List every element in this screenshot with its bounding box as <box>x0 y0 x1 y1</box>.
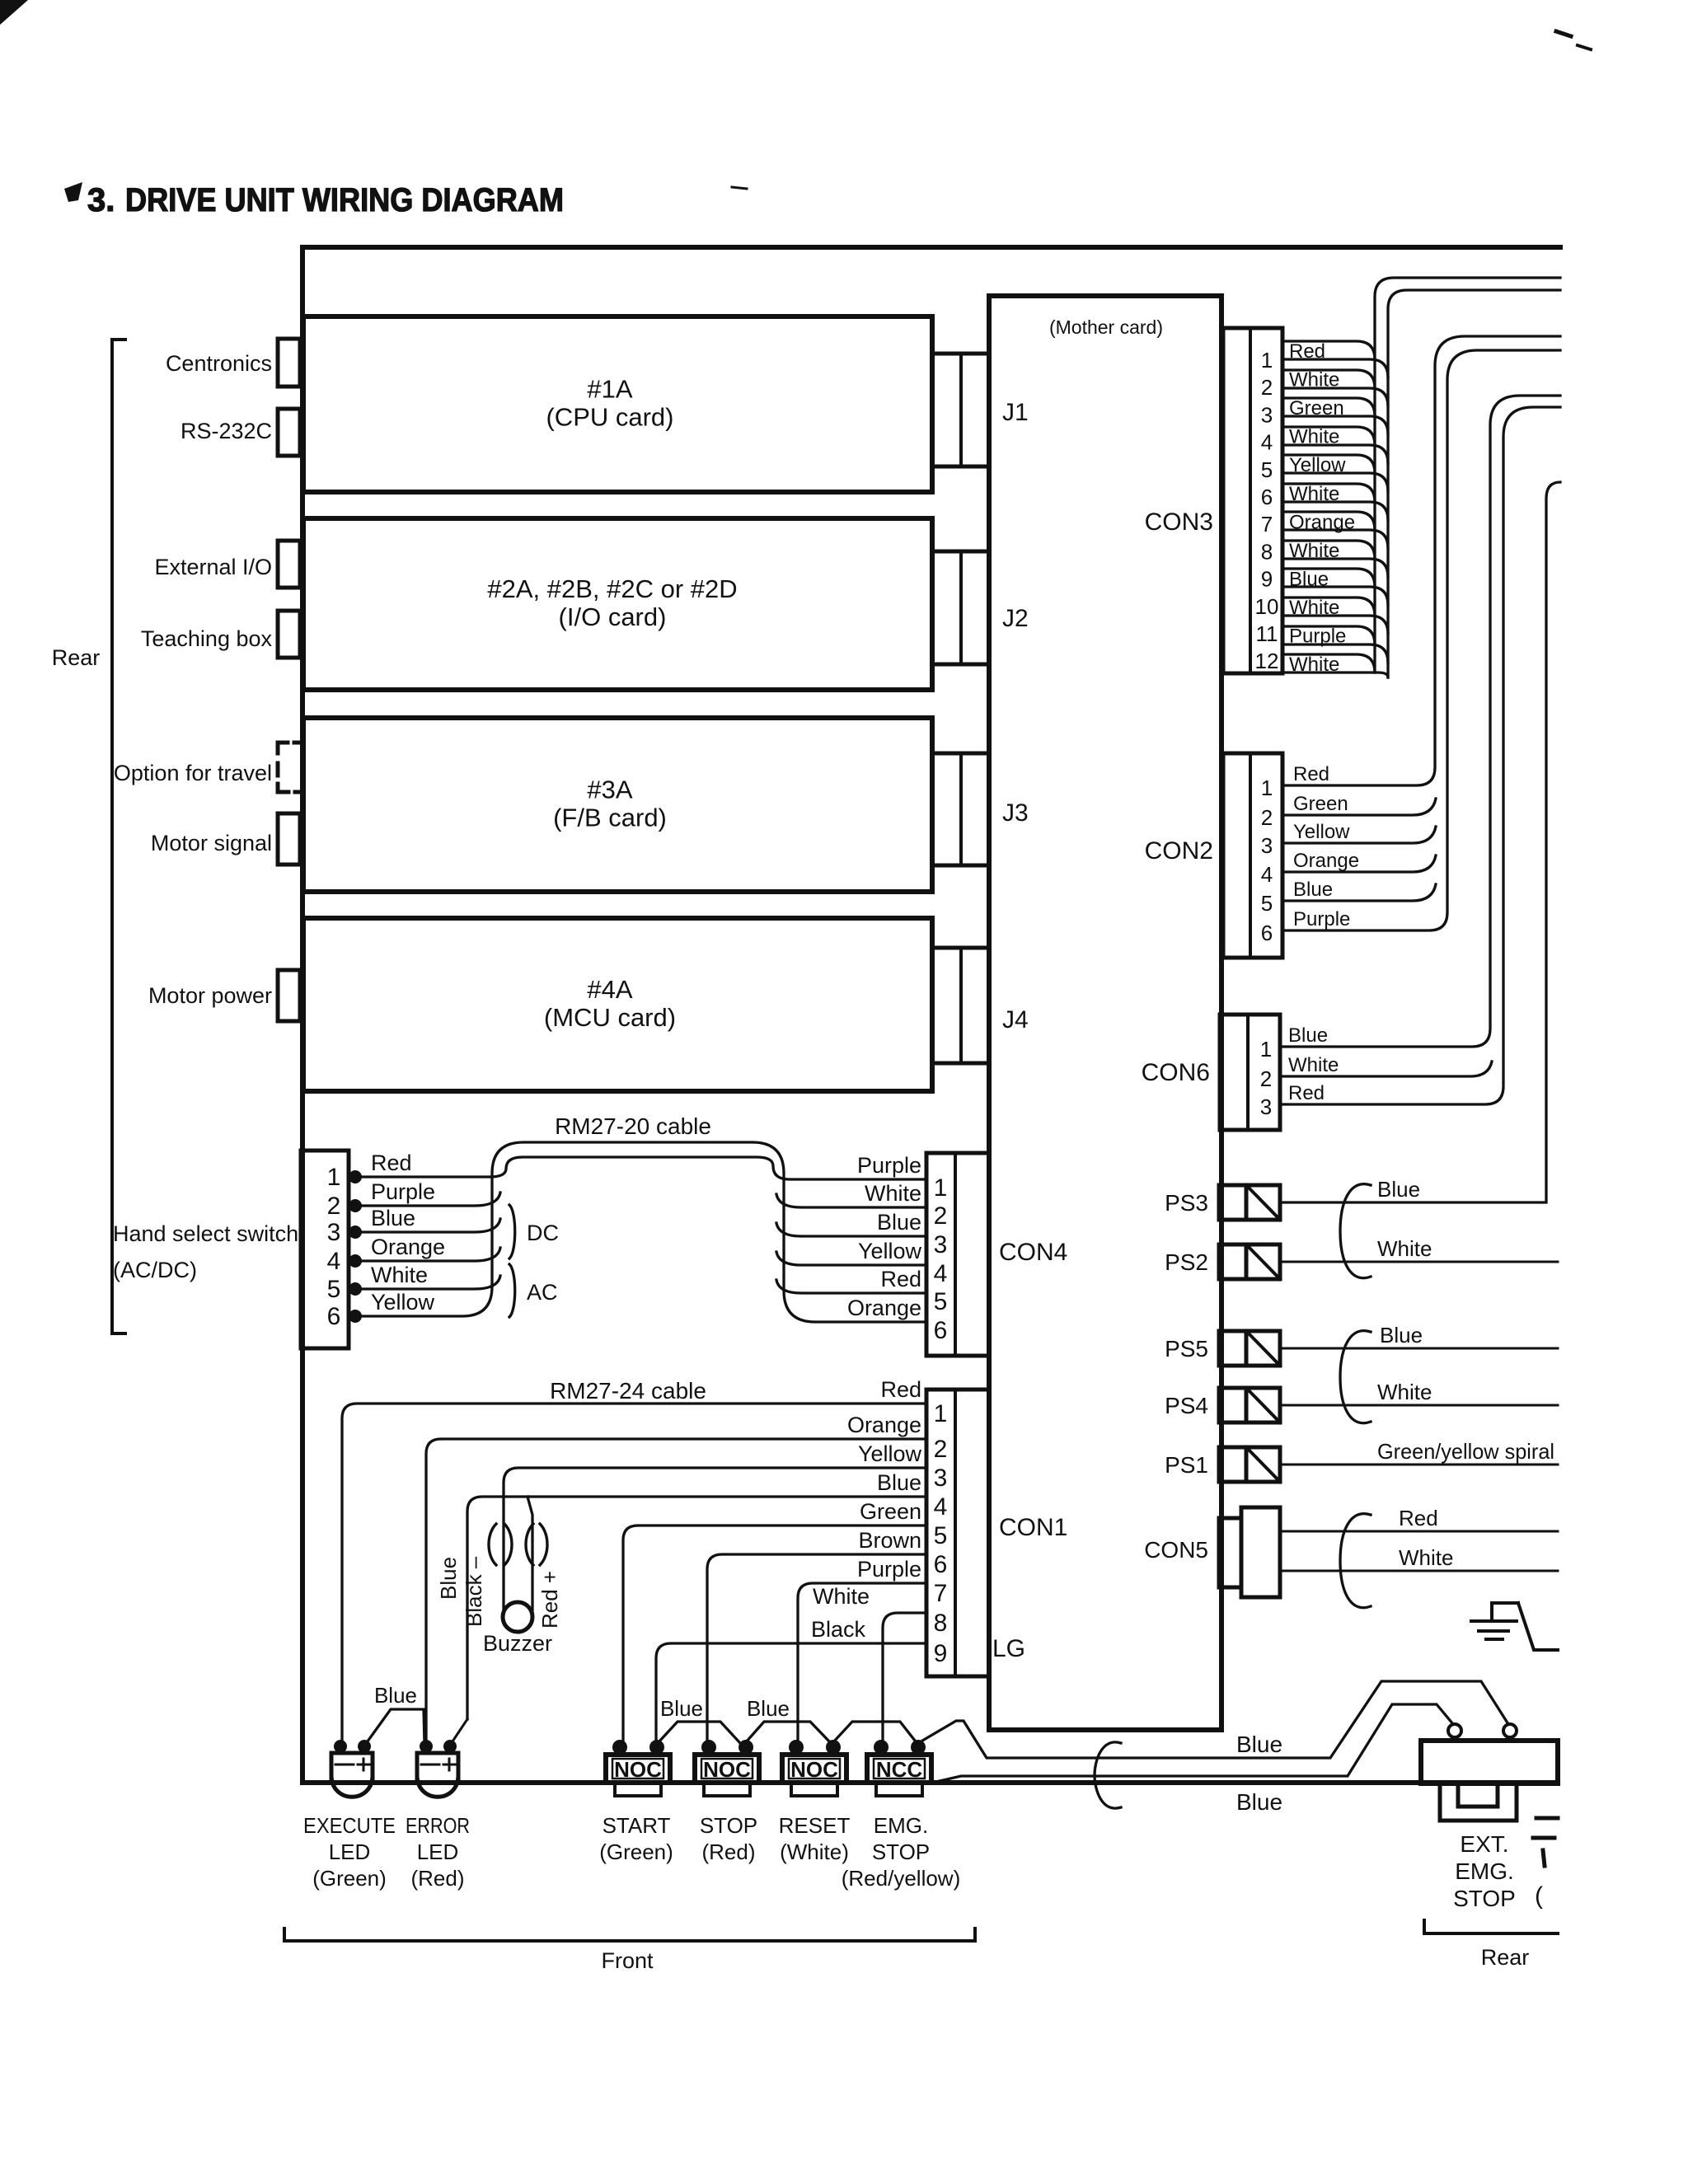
CON3 pin 9 wire box (Blue) <box>1282 569 1375 587</box>
CON1 wire 7 Purple <box>798 1583 926 1741</box>
START switch body <box>606 1755 670 1783</box>
svg-text:RESET: RESET <box>779 1813 851 1838</box>
svg-text:Blue: Blue <box>371 1206 415 1230</box>
svg-text:PS1: PS1 <box>1165 1452 1208 1478</box>
CON4 wire 3 right segment <box>776 1223 926 1236</box>
jumper wire Blue START-STOP <box>658 1722 740 1743</box>
svg-text:Orange: Orange <box>1289 511 1355 533</box>
CON4 wire 5 right segment <box>776 1280 926 1293</box>
svg-text:(Red): (Red) <box>410 1866 464 1891</box>
CON3 pin 11 wire box (Purple) <box>1282 626 1375 644</box>
svg-text:White: White <box>1289 597 1339 619</box>
bottom cable curl <box>1095 1742 1121 1808</box>
svg-text:White: White <box>1377 1236 1432 1261</box>
buzzer strain relief curls left lead <box>489 1524 496 1565</box>
RESET switch right terminal dot <box>826 1740 841 1755</box>
RM27-20 cable inner line / wire 1 <box>355 1157 926 1179</box>
svg-text:Yellow: Yellow <box>1289 454 1346 476</box>
Motor signal connector <box>278 813 300 865</box>
EMG STOP switch lower tab <box>876 1783 922 1796</box>
svg-text:EXECUTE: EXECUTE <box>303 1813 396 1838</box>
hand select switch wire 4 left segment <box>355 1248 500 1261</box>
svg-text:Green/yellow spiral: Green/yellow spiral <box>1377 1439 1554 1464</box>
hand select switch pin 2 terminal dot <box>349 1199 362 1212</box>
svg-text:LED: LED <box>329 1840 371 1864</box>
svg-text:Hand select switch: Hand select switch <box>113 1221 298 1246</box>
CON3 pin 2 wire box (White) <box>1282 370 1375 388</box>
svg-text:Centronics: Centronics <box>166 351 272 376</box>
card #2 (I/O card) <box>303 518 932 690</box>
connector CON5 body <box>1219 1518 1241 1587</box>
EXT EMG STOP plug outer <box>1440 1783 1517 1821</box>
ERROR LED polarity marks <box>421 1764 439 1766</box>
LED jumper wire Blue <box>365 1709 424 1745</box>
svg-text:Red: Red <box>371 1151 412 1175</box>
svg-text:(Green): (Green) <box>312 1866 387 1891</box>
svg-text:2: 2 <box>934 1202 948 1230</box>
CON3 cable bundle lower wall and exit wire <box>1388 290 1560 677</box>
svg-text:Front: Front <box>601 1948 654 1973</box>
svg-text:Blue: Blue <box>747 1696 790 1721</box>
Centronics connector <box>278 339 300 387</box>
PS4 wire White <box>1280 1404 1558 1407</box>
CON6 wire 2 <box>1280 1062 1492 1076</box>
svg-text:8: 8 <box>1261 539 1273 564</box>
svg-text:CON5: CON5 <box>1144 1537 1208 1563</box>
svg-text:NOC: NOC <box>614 1757 662 1782</box>
wire Blue from EMG switch to EXT EMG STOP upper <box>918 1681 1508 1758</box>
svg-text:6: 6 <box>1261 485 1273 509</box>
svg-text:Blue: Blue <box>1380 1323 1423 1347</box>
svg-text:2: 2 <box>1261 375 1273 400</box>
CON3 pin 1 wire box (Red) <box>1282 341 1375 359</box>
svg-text:RM27-24 cable: RM27-24 cable <box>550 1378 706 1404</box>
svg-text:Yellow: Yellow <box>858 1441 922 1466</box>
CON3 pin 7 wire box (Orange) <box>1282 512 1375 530</box>
CON1 wire 9 Black <box>656 1643 926 1741</box>
connector PS2 body <box>1219 1244 1246 1279</box>
connector J1 <box>932 354 989 466</box>
svg-text:Red: Red <box>1289 340 1325 363</box>
svg-text:External I/O: External I/O <box>154 555 272 579</box>
START switch lower tab <box>615 1783 661 1796</box>
hand select switch wire 3 left segment <box>355 1219 500 1232</box>
outer drive-unit box top edge <box>302 245 1560 250</box>
svg-text:Blue: Blue <box>1377 1177 1420 1202</box>
svg-text:#2A, #2B, #2C or #2D: #2A, #2B, #2C or #2D <box>487 574 737 603</box>
svg-text:STOP: STOP <box>700 1813 757 1838</box>
svg-text:White: White <box>1377 1380 1432 1404</box>
connector CON3 body <box>1223 328 1282 673</box>
Teaching box connector <box>278 611 300 658</box>
svg-text:(F/B card): (F/B card) <box>553 804 667 832</box>
Front bracket <box>284 1929 975 1941</box>
svg-text:3: 3 <box>1261 833 1273 858</box>
svg-text:PS5: PS5 <box>1165 1336 1208 1361</box>
CON4 wire 2 right segment <box>776 1194 926 1207</box>
connector PS1 body <box>1219 1447 1246 1482</box>
svg-text:3: 3 <box>934 1231 948 1258</box>
ERROR LED cathode terminal dot <box>420 1740 433 1753</box>
svg-text:CON6: CON6 <box>1142 1059 1210 1086</box>
CON3 pin 3 wire box (Green) <box>1282 398 1375 416</box>
EXT EMG STOP plug inner <box>1458 1783 1498 1807</box>
START switch right terminal dot <box>649 1740 664 1755</box>
svg-text:Yellow: Yellow <box>1293 821 1350 843</box>
svg-text:White: White <box>1289 369 1339 391</box>
svg-text:LED: LED <box>417 1840 459 1864</box>
CON3 pin 5 wire box (Yellow) <box>1282 455 1375 473</box>
svg-text:#4A: #4A <box>587 975 632 1004</box>
CON1 wire 4 Blue <box>467 1497 926 1719</box>
page artifact top-right dash 1 <box>1556 31 1571 36</box>
svg-text:Blue: Blue <box>1236 1789 1282 1815</box>
svg-text:(AC/DC): (AC/DC) <box>113 1258 197 1282</box>
svg-text:9: 9 <box>1261 567 1273 592</box>
CON3 cable bundle upper wall and exit wire <box>1375 278 1560 673</box>
STOP switch right terminal dot <box>738 1740 753 1755</box>
svg-text:#3A: #3A <box>587 776 632 804</box>
page artifact top-right dash 2 <box>1578 45 1591 49</box>
svg-text:Green: Green <box>860 1499 921 1524</box>
EMG STOP switch body <box>867 1755 931 1783</box>
svg-text:RM27-20 cable: RM27-20 cable <box>555 1113 711 1139</box>
svg-text:Red: Red <box>1293 763 1329 785</box>
svg-text:(CPU card): (CPU card) <box>546 403 673 432</box>
page corner artifact top-left <box>0 0 28 25</box>
svg-text:CON4: CON4 <box>999 1239 1067 1266</box>
hand select switch pin 5 terminal dot <box>349 1282 362 1296</box>
svg-text:EMG.: EMG. <box>874 1813 928 1838</box>
svg-text:4: 4 <box>1261 862 1273 887</box>
External I/O connector <box>278 541 300 588</box>
CON5 cable curl <box>1340 1514 1371 1608</box>
svg-text:9: 9 <box>934 1640 948 1667</box>
svg-text:Black: Black <box>811 1617 866 1642</box>
svg-text:4: 4 <box>327 1248 341 1275</box>
svg-text:3: 3 <box>1261 402 1273 427</box>
svg-text:DRIVE UNIT WIRING DIAGRAM: DRIVE UNIT WIRING DIAGRAM <box>125 182 564 218</box>
svg-text:STOP: STOP <box>872 1840 930 1864</box>
svg-text:4: 4 <box>1261 430 1273 455</box>
connector CON6 body <box>1220 1015 1280 1130</box>
svg-text:Motor signal: Motor signal <box>151 831 272 855</box>
connector CON4 body <box>926 1153 989 1356</box>
card #3A (F/B card) <box>303 718 932 892</box>
svg-text:1: 1 <box>934 1400 948 1427</box>
svg-text:Buzzer: Buzzer <box>483 1631 552 1656</box>
title stray dash <box>732 187 747 189</box>
svg-text:Black –: Black – <box>462 1556 486 1627</box>
svg-text:PS2: PS2 <box>1165 1249 1208 1275</box>
svg-text:White: White <box>1399 1545 1453 1570</box>
Option for travel connector (dashed) <box>278 743 288 753</box>
STOP switch lower tab <box>704 1783 750 1796</box>
svg-text:Green: Green <box>1289 397 1344 419</box>
svg-text:6: 6 <box>934 1317 948 1344</box>
svg-text:1: 1 <box>1260 1037 1272 1062</box>
CON2 wire 6 with bundle lower wall exit <box>1282 350 1560 930</box>
buzzer strain relief curls right lead <box>526 1524 533 1565</box>
EXECUTE LED cathode terminal dot <box>334 1740 347 1753</box>
connector J2 <box>932 551 989 664</box>
CON2 wire 3 <box>1282 827 1436 843</box>
CON3 pin 6 wire box (White) <box>1282 484 1375 502</box>
CON6 wire 1 with bundle upper wall exit <box>1280 396 1560 1047</box>
svg-text:7: 7 <box>1261 512 1273 537</box>
connector PS4 body <box>1219 1388 1246 1422</box>
hand select switch wire 2 left segment <box>355 1193 500 1206</box>
svg-text:Teaching box: Teaching box <box>141 626 273 651</box>
hand select switch pin 6 terminal dot <box>349 1310 362 1323</box>
CON1 wire 4 Blue drop to ERROR LED anode <box>452 1719 467 1741</box>
svg-text:6: 6 <box>934 1551 948 1578</box>
svg-text:(Mother card): (Mother card) <box>1049 316 1163 338</box>
jumper wire RESET-EMG <box>832 1722 918 1745</box>
svg-text:PS4: PS4 <box>1165 1393 1208 1418</box>
svg-text:White: White <box>1289 540 1339 562</box>
svg-text:Rear: Rear <box>1481 1945 1530 1970</box>
ERROR LED body <box>417 1753 458 1797</box>
svg-text:(MCU card): (MCU card) <box>544 1003 676 1032</box>
svg-text:Brown: Brown <box>858 1528 921 1553</box>
svg-text:8: 8 <box>934 1610 948 1637</box>
svg-text:J1: J1 <box>1002 399 1029 426</box>
jumper wire Blue STOP-RESET <box>745 1722 831 1743</box>
hand select switch body <box>301 1151 349 1348</box>
hand select switch pin 4 terminal dot <box>349 1254 362 1268</box>
CON1 wire 2 Orange <box>426 1439 926 1741</box>
svg-text:5: 5 <box>934 1522 948 1549</box>
svg-text:5: 5 <box>1261 891 1273 916</box>
EXT EMG STOP terminal circle left <box>1448 1724 1461 1737</box>
CON5 wire Red <box>1280 1530 1558 1533</box>
svg-text:Blue: Blue <box>1293 879 1333 901</box>
title: 13. DRIVE UNIT WIRING DIAGRAM <box>64 182 82 202</box>
CON6 wire 3 with bundle lower wall exit <box>1280 407 1560 1104</box>
svg-text:PS3: PS3 <box>1165 1190 1208 1216</box>
STOP switch left terminal dot <box>701 1740 716 1755</box>
svg-text:NOC: NOC <box>790 1757 838 1782</box>
svg-text:5: 5 <box>934 1288 948 1315</box>
RESET switch body <box>782 1755 846 1783</box>
CON3 pin 10 wire box (White) <box>1282 598 1375 616</box>
EMG STOP switch left terminal dot <box>874 1740 889 1755</box>
PS3 wire Blue to right riser <box>1280 482 1560 1202</box>
svg-text:EMG.: EMG. <box>1455 1858 1514 1884</box>
RESET switch left terminal dot <box>789 1740 804 1755</box>
Motor power connector <box>278 970 300 1021</box>
hand select switch pin 3 terminal dot <box>349 1226 362 1239</box>
svg-text:Option for travel: Option for travel <box>114 761 272 785</box>
AC bracket <box>509 1264 515 1317</box>
RS-232C connector <box>278 409 300 456</box>
connector CON1 body <box>926 1390 989 1676</box>
svg-text:1: 1 <box>934 1174 948 1202</box>
svg-text:White: White <box>865 1181 921 1206</box>
svg-text:White: White <box>813 1584 870 1609</box>
svg-text:4: 4 <box>934 1260 948 1287</box>
svg-text:AC: AC <box>527 1280 558 1305</box>
PS2 wire White <box>1280 1261 1558 1263</box>
svg-text:Blue: Blue <box>1236 1732 1282 1757</box>
svg-text:2: 2 <box>1260 1066 1272 1091</box>
svg-text:2: 2 <box>327 1193 341 1220</box>
svg-text:LG: LG <box>992 1635 1025 1662</box>
svg-text:STOP: STOP <box>1453 1886 1516 1911</box>
svg-text:Blue: Blue <box>1289 568 1329 590</box>
svg-text:White: White <box>371 1263 428 1287</box>
svg-text:Red: Red <box>1399 1506 1438 1530</box>
svg-text:CON3: CON3 <box>1145 509 1213 536</box>
svg-text:1: 1 <box>1261 348 1273 373</box>
svg-text:3: 3 <box>934 1465 948 1492</box>
svg-text:4: 4 <box>934 1493 948 1521</box>
PS5 wire Blue <box>1280 1347 1558 1350</box>
svg-text:NCC: NCC <box>876 1757 923 1782</box>
CON5 wire White <box>1280 1570 1558 1572</box>
svg-text:Blue: Blue <box>436 1557 461 1600</box>
mother card <box>989 296 1221 1730</box>
svg-text:Blue: Blue <box>877 1470 921 1495</box>
svg-text:1: 1 <box>327 1164 341 1191</box>
PS1 wire Green/yellow spiral <box>1280 1464 1558 1466</box>
svg-text:3: 3 <box>327 1219 341 1246</box>
PS5/PS4 cable curl <box>1340 1331 1371 1423</box>
svg-text:Motor power: Motor power <box>148 983 272 1008</box>
CON3 pin 12 wire box (White) <box>1282 654 1375 673</box>
CON3 pin 4 wire box (White) <box>1282 427 1375 445</box>
svg-text:Purple: Purple <box>1293 908 1350 930</box>
EXECUTE LED anode terminal dot <box>358 1740 371 1753</box>
svg-text:3: 3 <box>1260 1094 1272 1119</box>
CON2 wire 1 with bundle upper wall exit <box>1282 336 1560 785</box>
Rear bracket (bottom right) <box>1424 1920 1558 1933</box>
outer drive-unit box left edge <box>300 247 305 1783</box>
svg-text:CON1: CON1 <box>999 1514 1067 1541</box>
CON2 wire 5 <box>1282 884 1436 901</box>
CON1 wire 6 Brown <box>707 1554 926 1741</box>
RESET switch lower tab <box>791 1783 837 1796</box>
svg-text:Red +: Red + <box>537 1571 562 1629</box>
svg-text:White: White <box>1288 1054 1339 1076</box>
connector J4 <box>932 948 989 1063</box>
START switch left terminal dot <box>612 1740 627 1755</box>
EXT EMG STOP box <box>1421 1741 1558 1783</box>
svg-text:DC: DC <box>527 1221 559 1245</box>
cut-off glyphs right edge <box>1533 1818 1558 1866</box>
svg-text:(White): (White) <box>780 1840 849 1864</box>
CON1 wire 3 Yellow (buzzer black lead) <box>504 1468 926 1614</box>
svg-text:Red: Red <box>880 1267 921 1291</box>
EXECUTE LED body <box>331 1753 373 1797</box>
CON4 wire 4 right segment <box>776 1252 926 1265</box>
svg-text:6: 6 <box>1261 921 1273 945</box>
card #4A (MCU card) <box>303 918 932 1091</box>
svg-text:5: 5 <box>1261 457 1273 482</box>
svg-text:#1A: #1A <box>587 375 632 404</box>
svg-text:(: ( <box>1535 1882 1543 1910</box>
svg-text:11: 11 <box>1256 621 1278 646</box>
EXT EMG STOP terminal circle right <box>1503 1724 1517 1737</box>
svg-text:Orange: Orange <box>847 1413 921 1437</box>
svg-text:White: White <box>1289 654 1339 676</box>
connector J3 <box>932 753 989 865</box>
svg-text:Purple: Purple <box>857 1557 921 1582</box>
DC bracket <box>509 1205 515 1258</box>
PS3/PS2 cable curl <box>1340 1184 1371 1278</box>
svg-text:J4: J4 <box>1002 1006 1029 1033</box>
svg-text:(Green): (Green) <box>599 1840 673 1864</box>
svg-text:Yellow: Yellow <box>858 1239 922 1263</box>
svg-text:Blue: Blue <box>877 1210 921 1235</box>
svg-text:2: 2 <box>1261 805 1273 830</box>
svg-text:Yellow: Yellow <box>371 1290 435 1315</box>
svg-text:White: White <box>1289 426 1339 448</box>
ground symbol <box>1471 1603 1558 1650</box>
card #1A (CPU card) <box>303 316 932 492</box>
svg-text:ERROR: ERROR <box>406 1813 470 1838</box>
EMG STOP switch right terminal dot <box>911 1740 926 1755</box>
EXECUTE LED polarity marks <box>335 1764 354 1766</box>
svg-text:(Red): (Red) <box>701 1840 755 1864</box>
svg-text:(I/O card): (I/O card) <box>559 602 667 631</box>
CON2 wire 4 <box>1282 855 1436 872</box>
svg-text:Purple: Purple <box>1289 626 1346 648</box>
svg-text:White: White <box>1289 483 1339 505</box>
buzzer red lead from Blue wire <box>527 1497 532 1614</box>
svg-text:3.: 3. <box>87 182 115 218</box>
hand select switch pin 1 terminal dot <box>349 1170 362 1183</box>
svg-text:Red: Red <box>880 1377 921 1402</box>
svg-text:Purple: Purple <box>371 1179 435 1204</box>
CON3 pin 8 wire box (White) <box>1282 541 1375 559</box>
svg-text:5: 5 <box>327 1276 341 1303</box>
CON2 wire 2 <box>1282 799 1436 815</box>
svg-text:Orange: Orange <box>847 1296 921 1320</box>
svg-text:Purple: Purple <box>857 1153 921 1178</box>
CON1 wire 5 Green <box>623 1526 926 1741</box>
svg-text:Blue: Blue <box>660 1696 703 1721</box>
svg-text:Blue: Blue <box>374 1683 417 1708</box>
hand select switch wire 5 left segment <box>355 1276 500 1289</box>
svg-text:J3: J3 <box>1002 799 1029 827</box>
svg-text:RS-232C: RS-232C <box>181 419 272 443</box>
svg-text:J2: J2 <box>1002 605 1029 632</box>
svg-text:Orange: Orange <box>371 1235 445 1259</box>
CON1 wire 8 White <box>883 1613 926 1741</box>
svg-text:12: 12 <box>1255 649 1279 673</box>
wire Blue lower branch <box>932 1704 1453 1783</box>
svg-text:Rear: Rear <box>52 645 101 670</box>
RM27-20 cable outer line / wire 6 <box>355 1142 926 1322</box>
STOP switch body <box>695 1755 759 1783</box>
svg-text:Green: Green <box>1293 793 1348 815</box>
svg-text:10: 10 <box>1255 594 1279 619</box>
svg-text:2: 2 <box>934 1436 948 1463</box>
connector PS3 body <box>1219 1185 1246 1220</box>
svg-text:Orange: Orange <box>1293 850 1359 872</box>
svg-text:EXT.: EXT. <box>1460 1831 1508 1857</box>
svg-text:NOC: NOC <box>703 1757 751 1782</box>
svg-text:1: 1 <box>1261 776 1273 800</box>
svg-text:CON2: CON2 <box>1145 837 1213 865</box>
CON1 wire 1 Red <box>342 1404 926 1741</box>
svg-text:Red: Red <box>1288 1082 1325 1104</box>
buzzer body <box>503 1602 532 1632</box>
svg-text:(Red/yellow): (Red/yellow) <box>842 1866 961 1891</box>
ERROR LED anode terminal dot <box>443 1740 457 1753</box>
